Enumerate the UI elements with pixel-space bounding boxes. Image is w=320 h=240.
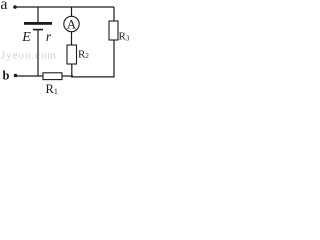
svg-text:A: A <box>67 17 77 32</box>
wire ammeter top stub <box>71 7 73 16</box>
wire R3 top stub <box>113 7 115 21</box>
resistor R2 <box>67 45 77 64</box>
terminal a <box>13 5 17 9</box>
terminal b <box>14 74 18 78</box>
wire bottom far right <box>71 76 115 78</box>
wire bottom right <box>62 75 73 77</box>
ammeter A <box>64 16 79 31</box>
wire R3 bottom stub <box>113 40 115 77</box>
svg-text:a: a <box>0 0 7 13</box>
wire battery top stub <box>37 7 39 23</box>
battery E positive plate <box>24 22 52 25</box>
wire battery bottom stub <box>37 30 39 76</box>
svg-text:r: r <box>46 30 52 45</box>
wire R2 bottom stub <box>71 64 73 77</box>
resistor R1 <box>43 73 62 80</box>
wire ammeter to R2 <box>71 32 73 45</box>
svg-text:Jyeoo.com: Jyeoo.com <box>1 49 57 61</box>
svg-text:b: b <box>3 68 10 82</box>
wire bottom left <box>16 75 44 77</box>
battery E negative plate <box>33 29 43 31</box>
wire top <box>15 6 114 8</box>
svg-text:E: E <box>21 30 31 45</box>
resistor R3 <box>109 21 118 40</box>
